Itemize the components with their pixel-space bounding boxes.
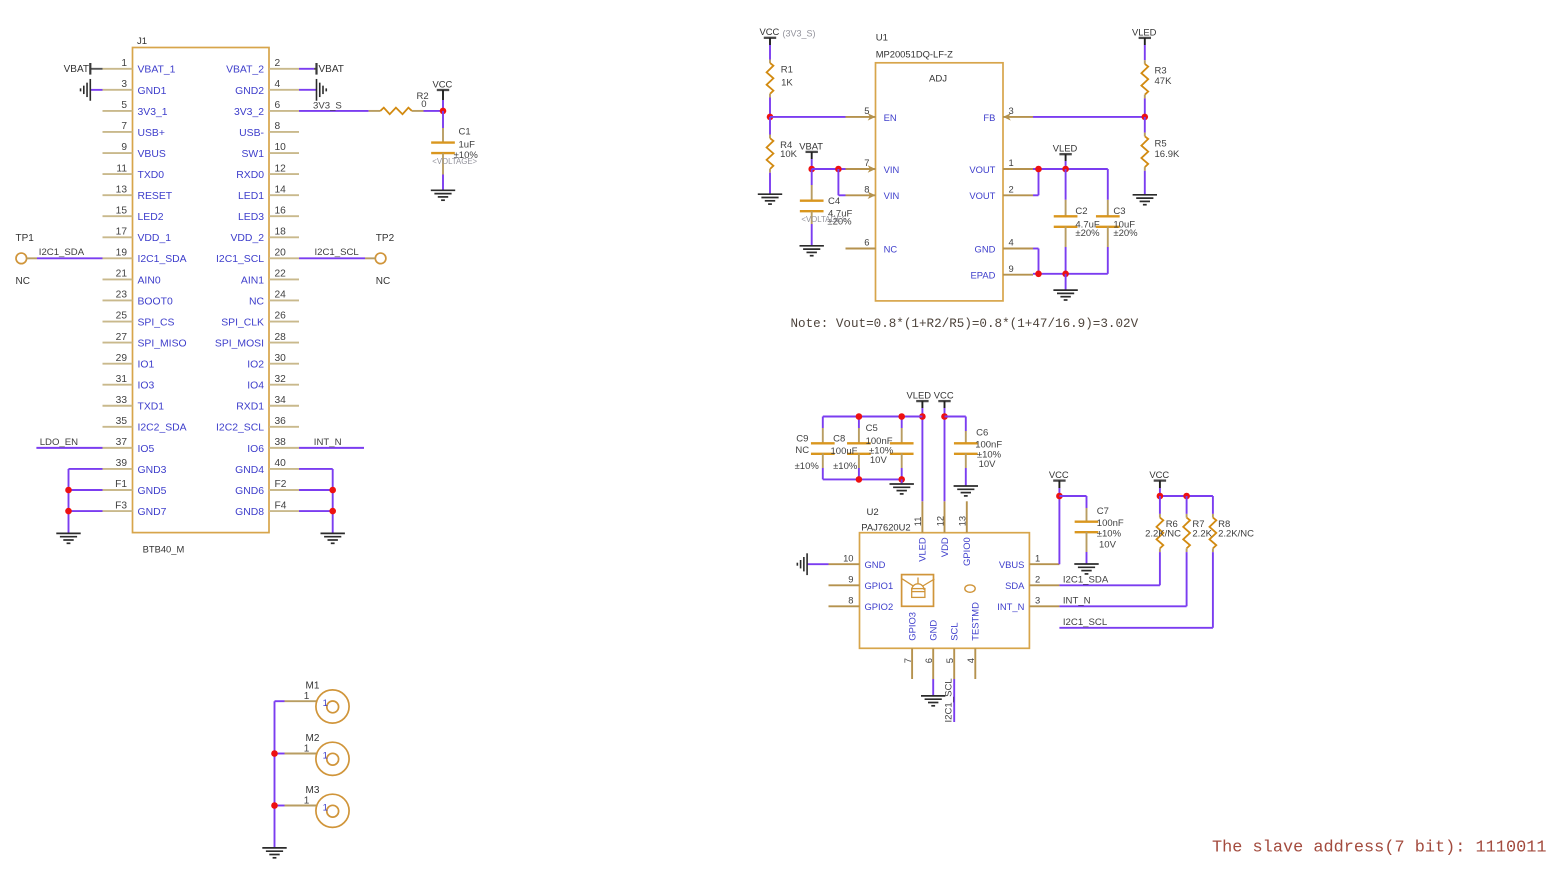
- wire VOUT2 jog: [1033, 169, 1039, 195]
- resistor R4 10K: [767, 117, 798, 173]
- resistor R3 47K: [1141, 45, 1172, 98]
- svg-text:C6: C6: [976, 427, 988, 438]
- svg-text:GND3: GND3: [138, 465, 167, 476]
- svg-text:30: 30: [275, 353, 287, 364]
- svg-text:33: 33: [116, 395, 128, 406]
- wire net I2C1_SCL (pin 5): [953, 679, 955, 722]
- svg-text:24: 24: [275, 290, 287, 301]
- wire VCC pull-up rail: [1160, 488, 1213, 496]
- capacitor C7 100nF: [1075, 506, 1124, 552]
- junction VLED/rail: [919, 413, 926, 420]
- net label 3V3_S: [313, 100, 342, 111]
- svg-text:I2C1_SDA: I2C1_SDA: [39, 247, 85, 258]
- junction VOUT jog/rail: [1035, 166, 1042, 173]
- resistor R5 16.9K: [1141, 117, 1180, 171]
- resistor R6 2.2K/NC: [1145, 496, 1181, 552]
- ground (J1 right): [321, 533, 345, 543]
- wire VLED stem to rail: [1065, 161, 1067, 169]
- svg-text:26: 26: [275, 311, 287, 322]
- U1 pin 5 (EN): [846, 105, 897, 123]
- U2 pin 4 (TESTMD): [965, 602, 981, 679]
- svg-text:TXD1: TXD1: [138, 402, 165, 413]
- svg-text:R3: R3: [1155, 65, 1167, 76]
- J1 pin 21 (AIN0): [103, 269, 161, 287]
- J1 pin 4 (GND2): [235, 79, 299, 97]
- svg-text:VLED: VLED: [917, 537, 928, 562]
- svg-text:±10%: ±10%: [795, 461, 820, 472]
- svg-text:GND8: GND8: [235, 507, 264, 518]
- junction R6/rail: [1157, 493, 1164, 500]
- svg-text:1: 1: [1035, 552, 1040, 563]
- J1 pin 36 (I2C2_SCL): [216, 416, 299, 434]
- power VCC (U2 VDD): [934, 390, 954, 409]
- ground (C7): [1074, 564, 1098, 574]
- J1 pin 16 (LED3): [238, 205, 299, 223]
- power VCC (at R2/C1): [433, 78, 453, 100]
- U1 pin 7 (VIN): [846, 157, 900, 175]
- svg-text:NC: NC: [884, 243, 898, 254]
- svg-text:VBAT: VBAT: [319, 64, 344, 75]
- svg-text:VBAT_2: VBAT_2: [226, 65, 264, 76]
- svg-text:1K: 1K: [781, 78, 793, 89]
- junction C8 top: [856, 413, 863, 420]
- svg-text:VCC: VCC: [934, 390, 954, 401]
- J1 pin 12 (RXD0): [236, 163, 299, 181]
- J1 pin F1 (GND5): [103, 479, 167, 497]
- svg-text:GND1: GND1: [138, 86, 167, 97]
- svg-text:9: 9: [1009, 263, 1014, 274]
- wire net I2C1_SCL (R8): [1059, 552, 1213, 628]
- J1 pin 6 (3V3_2): [234, 100, 299, 118]
- U2 pin 11 (VLED): [912, 501, 928, 562]
- svg-text:5: 5: [121, 100, 127, 111]
- ground (J1 left): [56, 533, 80, 543]
- svg-text:11: 11: [116, 163, 127, 174]
- svg-text:16: 16: [275, 205, 287, 216]
- svg-text:32: 32: [275, 374, 287, 385]
- svg-text:ADJ: ADJ: [929, 74, 947, 85]
- svg-text:R5: R5: [1155, 138, 1167, 149]
- svg-text:7: 7: [121, 121, 127, 132]
- svg-text:29: 29: [116, 353, 128, 364]
- wire pin3 to ground: [90, 89, 102, 91]
- svg-text:14: 14: [275, 184, 287, 195]
- wire net LDO_EN (pin 37): [36, 447, 102, 449]
- svg-text:3V3_1: 3V3_1: [138, 107, 168, 118]
- svg-text:10K: 10K: [780, 149, 798, 160]
- ground (C1): [431, 190, 455, 200]
- power VBAT (U1): [799, 140, 823, 159]
- svg-text:GPIO1: GPIO1: [865, 580, 894, 591]
- ground (R4): [758, 194, 782, 204]
- svg-text:VBAT: VBAT: [799, 140, 823, 151]
- svg-text:VBAT: VBAT: [64, 64, 89, 75]
- svg-text:GND6: GND6: [235, 486, 264, 497]
- U1 pin 2 (VOUT): [969, 184, 1033, 202]
- svg-text:10: 10: [275, 142, 287, 153]
- wire to M1: [275, 700, 317, 702]
- svg-text:<VOLTAGE>: <VOLTAGE>: [432, 157, 477, 166]
- wire net INT_N (pin 38): [299, 447, 364, 449]
- J1 pin 9 (VBUS): [103, 142, 166, 160]
- wire R4 to ground: [769, 173, 771, 194]
- wire EPAD rail to ground: [1065, 274, 1067, 290]
- J1 pin 18 (VDD_2): [231, 226, 300, 244]
- label <VOLTAGE> (C4): [801, 215, 846, 224]
- wire pin6 to ground: [932, 679, 934, 696]
- wire pin10 to ground: [807, 563, 828, 565]
- wire VOUT rail: [1033, 168, 1108, 170]
- svg-text:LDO_EN: LDO_EN: [40, 437, 78, 448]
- wire VLED cap rail (top): [823, 416, 923, 418]
- svg-text:SPI_MOSI: SPI_MOSI: [215, 338, 264, 349]
- svg-text:3V3_2: 3V3_2: [234, 107, 264, 118]
- wire pin 40 GND4 to ground rail: [299, 469, 333, 533]
- wire FB to divider node: [1033, 116, 1145, 118]
- svg-text:M3: M3: [306, 785, 320, 796]
- svg-text:I2C1_SCL: I2C1_SCL: [944, 678, 955, 723]
- svg-text:TP1: TP1: [16, 233, 35, 244]
- junction F3/rail: [65, 508, 72, 515]
- svg-text:21: 21: [116, 269, 128, 280]
- net label I2C1_SDA (left): [39, 247, 85, 258]
- svg-text:27: 27: [116, 332, 128, 343]
- svg-text:GPIO3: GPIO3: [906, 612, 917, 641]
- junction F2/rail: [329, 487, 336, 494]
- svg-text:19: 19: [116, 248, 128, 259]
- test point TP1: [16, 233, 35, 287]
- J1 pin 1 (VBAT_1): [103, 58, 176, 76]
- net label I2C1_SDA (right): [1063, 575, 1109, 586]
- junction F1/rail: [65, 487, 72, 494]
- svg-text:VBAT_1: VBAT_1: [138, 65, 176, 76]
- svg-text:C4: C4: [828, 196, 840, 207]
- power VLED (R3 top): [1132, 26, 1157, 45]
- svg-text:C7: C7: [1097, 506, 1109, 517]
- svg-text:8: 8: [275, 121, 281, 132]
- wire VLED stem to pin 11: [921, 408, 923, 501]
- power VCC (pull-ups): [1149, 469, 1169, 488]
- junction VCC/C7 branch: [1056, 493, 1063, 500]
- junction M3/rail: [271, 802, 278, 809]
- net label I2C1_SCL (TP2): [315, 247, 360, 258]
- junction C8 bottom: [856, 476, 863, 483]
- J1 pin 30 (IO2): [247, 353, 299, 371]
- J1 pin F4 (GND8): [235, 500, 299, 518]
- svg-text:6: 6: [923, 658, 934, 663]
- svg-text:GND4: GND4: [235, 465, 264, 476]
- ground (mount holes): [262, 848, 286, 858]
- U2 pin 10 (GND): [829, 552, 886, 570]
- svg-text:GND: GND: [928, 620, 939, 641]
- svg-text:IO5: IO5: [138, 444, 155, 455]
- svg-text:F2: F2: [275, 479, 287, 490]
- svg-text:2.2K: 2.2K: [1192, 529, 1212, 540]
- wire net I2C1_SDA (pin2 to R6): [1059, 552, 1160, 585]
- wire branch to VIN pin8: [838, 169, 845, 195]
- test point TP2: [375, 233, 394, 287]
- wire GND4 jog: [1033, 249, 1039, 274]
- J1 pin 28 (SPI_MOSI): [215, 332, 299, 350]
- svg-text:3: 3: [1009, 105, 1014, 116]
- svg-text:VCC: VCC: [1149, 469, 1169, 480]
- svg-text:6: 6: [864, 237, 869, 248]
- svg-text:(3V3_S): (3V3_S): [783, 28, 816, 38]
- svg-text:35: 35: [116, 416, 128, 427]
- J1 pin 23 (BOOT0): [103, 290, 173, 308]
- junction M2/rail: [271, 750, 278, 757]
- wire R3 to node: [1144, 98, 1146, 117]
- svg-text:1: 1: [323, 749, 328, 760]
- svg-text:VLED: VLED: [1132, 26, 1157, 37]
- wire C7 to ground: [1086, 552, 1088, 564]
- svg-text:9: 9: [121, 142, 127, 153]
- U1 pin 4 (GND): [975, 237, 1033, 255]
- J1 pin 33 (TXD1): [103, 395, 165, 413]
- U1 pin 6 (NC): [846, 237, 898, 255]
- capacitor C2 4.7uF: [1054, 169, 1100, 247]
- svg-text:BTB40_M: BTB40_M: [143, 544, 185, 555]
- svg-text:Note: Vout=0.8*(1+R2/R5)=0.8*(: Note: Vout=0.8*(1+R2/R5)=0.8*(1+47/16.9)…: [791, 317, 1139, 331]
- svg-text:F4: F4: [275, 500, 287, 511]
- junction C5 bottom: [898, 476, 905, 483]
- label (3V3_S): [783, 28, 816, 38]
- svg-text:NC: NC: [249, 296, 265, 307]
- svg-text:VLED: VLED: [907, 390, 932, 401]
- junction VIN7/VIN8 branch: [835, 166, 842, 173]
- J1 pin 19 (I2C1_SDA): [103, 248, 187, 266]
- svg-text:34: 34: [275, 395, 287, 406]
- svg-text:20: 20: [275, 248, 287, 259]
- ground (J1 pin 3): [81, 79, 91, 101]
- svg-text:VIN: VIN: [884, 190, 900, 201]
- wire branch to C7: [1059, 496, 1086, 508]
- svg-text:4: 4: [1009, 237, 1014, 248]
- svg-text:F3: F3: [115, 500, 127, 511]
- svg-text:USB+: USB+: [138, 128, 165, 139]
- svg-text:M1: M1: [306, 681, 320, 692]
- svg-text:36: 36: [275, 416, 287, 427]
- svg-text:16.9K: 16.9K: [1155, 149, 1180, 160]
- svg-text:AIN1: AIN1: [241, 275, 264, 286]
- svg-text:NC: NC: [795, 445, 809, 456]
- wire EPAD rail: [1033, 273, 1108, 275]
- resistor R8 2.2K/NC: [1210, 496, 1255, 552]
- svg-text:2: 2: [1009, 184, 1014, 195]
- svg-text:U1: U1: [876, 33, 888, 44]
- svg-text:J1: J1: [137, 36, 147, 47]
- wire C3 to EPAD rail: [1107, 247, 1109, 274]
- svg-text:12: 12: [275, 163, 287, 174]
- svg-text:VIN: VIN: [884, 164, 900, 175]
- svg-text:RXD0: RXD0: [236, 170, 264, 181]
- svg-text:12: 12: [934, 516, 945, 526]
- svg-text:IO2: IO2: [247, 360, 264, 371]
- svg-text:6: 6: [275, 100, 281, 111]
- svg-text:LED2: LED2: [138, 212, 164, 223]
- power VCC (VBUS): [1049, 469, 1069, 488]
- power VBAT (pin 2): [317, 63, 344, 75]
- J1 pin 26 (SPI_CLK): [221, 311, 299, 329]
- U2 small ellipse mark: [965, 585, 975, 592]
- svg-text:R1: R1: [781, 64, 793, 75]
- svg-text:BOOT0: BOOT0: [138, 296, 173, 307]
- svg-text:GND: GND: [975, 243, 996, 254]
- U2 pin 3 (INT_N): [997, 595, 1059, 613]
- svg-text:C5: C5: [866, 423, 878, 434]
- svg-text:15: 15: [116, 205, 128, 216]
- U1 pin 3 (FB): [983, 105, 1033, 123]
- svg-text:7: 7: [864, 157, 869, 168]
- svg-text:GND7: GND7: [138, 507, 167, 518]
- svg-text:GND5: GND5: [138, 486, 167, 497]
- U1 pin 8 (VIN): [846, 184, 900, 202]
- svg-text:22: 22: [275, 269, 287, 280]
- svg-text:4: 4: [275, 79, 281, 90]
- U2 pin 12 (VDD): [934, 501, 950, 557]
- capacitor C5 100nF: [866, 417, 914, 480]
- J1 pin 2 (VBAT_2): [226, 58, 299, 76]
- svg-text:39: 39: [116, 458, 128, 469]
- svg-text:VOUT: VOUT: [969, 190, 995, 201]
- net label INT_N (right): [1063, 596, 1091, 607]
- wire pin F2 GND6: [299, 489, 333, 491]
- svg-text:GND: GND: [865, 559, 886, 570]
- wire C1 to ground: [442, 175, 444, 191]
- svg-text:28: 28: [275, 332, 287, 343]
- wire mount-hole ground rail: [274, 701, 276, 848]
- svg-text:I2C2_SDA: I2C2_SDA: [138, 423, 187, 434]
- svg-text:9: 9: [848, 574, 853, 585]
- svg-text:5: 5: [944, 658, 955, 663]
- svg-text:VLED: VLED: [1053, 143, 1078, 154]
- U1 pin 1 (VOUT): [969, 157, 1033, 175]
- svg-text:VBUS: VBUS: [138, 149, 166, 160]
- svg-text:FB: FB: [983, 112, 995, 123]
- svg-text:4: 4: [965, 658, 976, 663]
- wire C4 to ground: [811, 224, 813, 246]
- J1 pin 25 (SPI_CS): [103, 311, 175, 329]
- svg-text:VDD_2: VDD_2: [231, 233, 265, 244]
- svg-text:TESTMD: TESTMD: [970, 602, 981, 641]
- U2 pin 8 (GPIO2): [829, 595, 894, 613]
- svg-text:GPIO2: GPIO2: [865, 601, 894, 612]
- ground (R5): [1133, 195, 1157, 205]
- wire net I2C1_SCL (pin 20 to TP2): [299, 257, 375, 259]
- svg-text:3: 3: [1035, 595, 1040, 606]
- svg-text:INT_N: INT_N: [314, 437, 342, 448]
- svg-text:IO6: IO6: [247, 444, 264, 455]
- svg-text:VBUS: VBUS: [999, 559, 1025, 570]
- svg-text:C2: C2: [1075, 206, 1087, 217]
- svg-text:38: 38: [275, 437, 287, 448]
- wire R2 to VCC node: [424, 110, 444, 112]
- resistor R7 2.2K: [1183, 496, 1212, 552]
- svg-text:±10%: ±10%: [833, 461, 858, 472]
- junction C5 top: [898, 413, 905, 420]
- svg-text:25: 25: [116, 311, 128, 322]
- capacitor C9 NC: [795, 417, 835, 480]
- ground (C4): [800, 246, 824, 256]
- svg-text:IO4: IO4: [247, 381, 264, 392]
- J1 pin 39 (GND3): [103, 458, 167, 476]
- svg-text:1: 1: [323, 801, 328, 812]
- svg-text:EN: EN: [884, 112, 897, 123]
- junction VCC/C6 rail: [941, 413, 948, 420]
- power VLED (U2): [907, 390, 932, 409]
- svg-text:100uF: 100uF: [831, 446, 858, 457]
- slave address text: [1212, 839, 1547, 858]
- net label INT_N (J1): [314, 437, 342, 448]
- U2 pin 5 (SCL): [944, 622, 960, 679]
- wire VCC to C6: [945, 417, 966, 432]
- svg-text:7: 7: [902, 658, 913, 663]
- svg-text:13: 13: [116, 184, 128, 195]
- wire pin F3 GND7: [69, 510, 103, 512]
- svg-text:VDD: VDD: [939, 537, 950, 557]
- J1 pin 15 (LED2): [103, 205, 164, 223]
- svg-text:1: 1: [304, 796, 310, 807]
- svg-text:I2C1_SDA: I2C1_SDA: [138, 254, 187, 265]
- wire pin F4 GND8: [299, 510, 333, 512]
- U2 sensor icon: [902, 575, 935, 607]
- power VBAT (pin 1): [64, 63, 91, 75]
- svg-text:I2C1_SCL: I2C1_SCL: [1063, 617, 1108, 628]
- svg-text:I2C1_SCL: I2C1_SCL: [216, 254, 264, 265]
- svg-text:I2C2_SCL: I2C2_SCL: [216, 423, 264, 434]
- svg-text:SPI_CLK: SPI_CLK: [221, 317, 264, 328]
- power VCC (R1 top): [760, 26, 780, 45]
- J1 pin 24 (NC): [249, 290, 299, 308]
- wire VBAT to VIN pin7: [812, 168, 846, 170]
- svg-text:SCL: SCL: [949, 622, 960, 640]
- junction R1/R4/EN: [767, 114, 774, 121]
- J1 pin 34 (RXD1): [236, 395, 299, 413]
- capacitor C3 10uF: [1096, 169, 1138, 247]
- svg-text:10: 10: [843, 552, 853, 563]
- wire pin1 to VBAT: [90, 68, 102, 70]
- J1 pin 35 (I2C2_SDA): [103, 416, 187, 434]
- svg-text:1uF: 1uF: [459, 139, 476, 150]
- wire VLED cap rail (bottom): [823, 478, 902, 480]
- junction F4/rail: [329, 508, 336, 515]
- J1 pin 20 (I2C1_SCL): [216, 248, 299, 266]
- wire pin2 to VBAT: [299, 68, 317, 70]
- J1 pin 3 (GND1): [103, 79, 167, 97]
- svg-text:USB-: USB-: [239, 128, 264, 139]
- svg-text:10V: 10V: [979, 459, 997, 470]
- U2 pin 1 (VBUS): [999, 552, 1060, 570]
- wire R1 to node: [769, 98, 771, 117]
- wire pin F1 GND5: [69, 489, 103, 491]
- J1 pin 13 (RESET): [103, 184, 173, 202]
- mount hole M2: [304, 733, 349, 775]
- junction VLED/C2/rail: [1062, 166, 1069, 173]
- svg-text:<VOLTAGE>: <VOLTAGE>: [801, 215, 846, 224]
- junction C2/EPAD rail: [1062, 271, 1069, 278]
- svg-text:GND2: GND2: [235, 86, 264, 97]
- J1 pin 10 (SW1): [241, 142, 299, 160]
- mount hole M3: [304, 785, 349, 827]
- wire net INT_N (pin3 to R7): [1059, 552, 1186, 606]
- svg-text:±20%: ±20%: [1075, 228, 1100, 239]
- svg-text:TXD0: TXD0: [138, 170, 165, 181]
- wire VCC stem to pin 12: [944, 408, 946, 501]
- svg-text:2: 2: [275, 58, 281, 69]
- svg-text:18: 18: [275, 226, 287, 237]
- svg-text:SPI_MISO: SPI_MISO: [138, 338, 187, 349]
- svg-text:1: 1: [1009, 157, 1014, 168]
